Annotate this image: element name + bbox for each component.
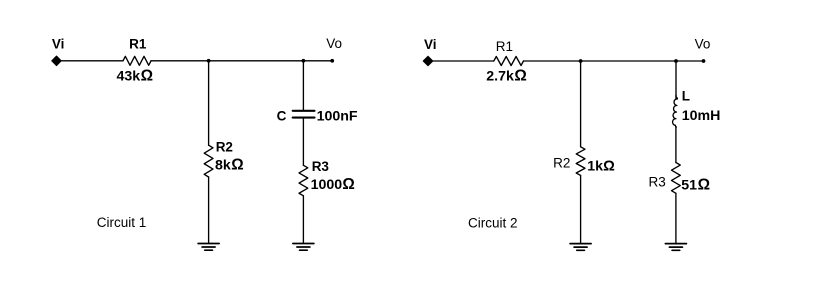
wire node to capacitor C — [302, 61, 304, 110]
junction node (R2 tap) — [207, 59, 211, 63]
svg-text:10mH: 10mH — [682, 108, 721, 124]
svg-text:1000Ω: 1000Ω — [311, 176, 355, 193]
junction node (L/R3 tap, Circuit 2) — [674, 59, 678, 63]
wire node to R2 — [208, 61, 210, 145]
resistor R1 (43k) — [123, 56, 151, 65]
wire node to inductor L — [675, 61, 677, 99]
svg-text:Vo: Vo — [326, 36, 342, 51]
junction node (R2 tap, Circuit 2) — [579, 59, 583, 63]
output terminal Vo (Circuit 1) — [330, 59, 334, 63]
wire node to R2 (Circuit 2) — [580, 61, 582, 147]
svg-text:Vo: Vo — [695, 36, 711, 51]
output terminal Vo (Circuit 2) — [702, 59, 706, 63]
wire R1 to Vo node — [151, 60, 332, 62]
junction node (C/R3 tap) — [302, 59, 306, 63]
svg-text:51Ω: 51Ω — [681, 176, 710, 193]
wire C to R3 — [302, 119, 304, 166]
wire R2 to ground — [208, 177, 210, 243]
svg-text:1kΩ: 1kΩ — [587, 158, 615, 174]
svg-text:R2: R2 — [216, 140, 233, 155]
svg-text:Vi: Vi — [52, 37, 65, 52]
wire L to R3 (Circuit 2) — [675, 127, 677, 163]
ground (under R2, Circuit 2) — [570, 244, 591, 251]
svg-text:8kΩ: 8kΩ — [215, 157, 244, 174]
svg-text:L: L — [682, 89, 690, 104]
wire Vi to R1 — [61, 60, 123, 62]
resistor R1 (2.7k) — [494, 57, 524, 66]
resistor R2 (1k) — [576, 147, 585, 176]
svg-text:2.7kΩ: 2.7kΩ — [486, 67, 527, 84]
wire Vi to R1 (Circuit 2) — [433, 60, 494, 62]
svg-text:C: C — [277, 109, 287, 124]
svg-text:Vi: Vi — [424, 37, 437, 52]
ground (under R3, Circuit 2) — [665, 244, 686, 251]
wire R2 to ground (Circuit 2) — [580, 175, 582, 243]
inductor L (10mH) — [673, 95, 678, 127]
wire R1 to Vo node (Circuit 2) — [524, 60, 704, 62]
wire R3 to ground (Circuit 2) — [675, 193, 677, 243]
svg-text:R3: R3 — [649, 174, 666, 189]
svg-text:Circuit 2: Circuit 2 — [468, 215, 518, 230]
wire R3 to ground — [302, 196, 304, 243]
svg-text:Circuit 1: Circuit 1 — [97, 215, 147, 230]
svg-text:R2: R2 — [553, 156, 570, 171]
ground (under R3) — [293, 244, 314, 251]
svg-text:43kΩ: 43kΩ — [117, 68, 154, 85]
resistor R3 (51 ohm) — [672, 163, 681, 194]
capacitor C (100nF) — [293, 111, 315, 118]
svg-text:R1: R1 — [496, 39, 513, 54]
svg-text:R3: R3 — [312, 159, 330, 174]
resistor R2 (8k) — [204, 145, 213, 177]
svg-text:100nF: 100nF — [317, 109, 358, 125]
ground (under R2) — [198, 244, 219, 251]
svg-text:R1: R1 — [129, 37, 147, 52]
input terminal Vi (Circuit 1) — [52, 56, 62, 66]
resistor R3 (1000 ohm) — [299, 165, 308, 195]
input terminal Vi (Circuit 2) — [423, 56, 433, 66]
